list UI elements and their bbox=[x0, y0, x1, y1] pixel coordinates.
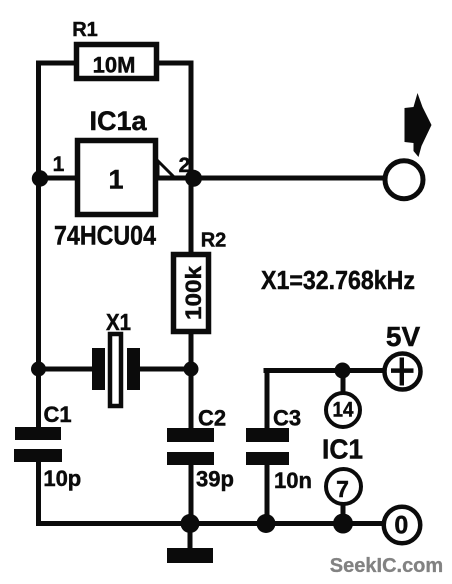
pin 14 bbox=[326, 393, 360, 427]
svg-text:C2: C2 bbox=[198, 406, 226, 431]
svg-text:1: 1 bbox=[108, 165, 123, 195]
svg-text:5V: 5V bbox=[386, 321, 421, 352]
svg-text:0: 0 bbox=[394, 512, 408, 540]
node ground rail junction 2 bbox=[257, 514, 276, 533]
output terminal circle bbox=[385, 161, 423, 199]
svg-text:10n: 10n bbox=[274, 468, 312, 493]
wire ground stub bbox=[188, 524, 193, 551]
node 0V terminal bbox=[384, 507, 421, 544]
wire output to terminal bbox=[158, 176, 385, 181]
capacitor C1 bbox=[14, 402, 81, 491]
wire C3 top branch bbox=[265, 371, 270, 429]
node 5V terminal bbox=[385, 321, 421, 390]
svg-text:X1: X1 bbox=[106, 309, 131, 335]
svg-text:R2: R2 bbox=[201, 230, 227, 252]
wire R1 to right rail bbox=[159, 61, 191, 66]
svg-text:39p: 39p bbox=[196, 467, 234, 492]
wire left vertical rail bbox=[36, 63, 41, 427]
capacitor C2 bbox=[167, 406, 234, 492]
svg-text:2: 2 bbox=[179, 154, 191, 177]
resistor R2 bbox=[174, 230, 227, 332]
svg-text:IC1a: IC1a bbox=[89, 106, 147, 136]
node pin2 junction bbox=[185, 170, 202, 187]
wire C3 bottom branch bbox=[265, 465, 270, 524]
node ground rail junction 1 bbox=[181, 514, 200, 533]
output arrow bbox=[405, 93, 432, 157]
svg-text:74HCU04: 74HCU04 bbox=[54, 221, 156, 251]
node crystal left junction bbox=[31, 362, 46, 377]
wire right vertical rail upper bbox=[189, 63, 194, 252]
wire top rail to R1 bbox=[39, 61, 75, 66]
wire crystal right bbox=[139, 367, 191, 372]
ground bbox=[167, 548, 213, 563]
capacitor C3 bbox=[246, 406, 312, 494]
svg-text:IC1: IC1 bbox=[322, 434, 363, 465]
op-amp U1 inverter gate IC1a bbox=[53, 106, 191, 251]
crystal X1 bbox=[92, 309, 140, 406]
node crystal right junction bbox=[184, 362, 199, 377]
wire R2 bottom to crystal node bbox=[189, 334, 194, 428]
pin 7 bbox=[326, 469, 361, 504]
wire left rail below C1 bbox=[36, 462, 41, 524]
wire pin14 stub bbox=[341, 371, 346, 394]
svg-text:C3: C3 bbox=[273, 406, 301, 431]
wire bottom ground rail bbox=[39, 521, 385, 526]
svg-text:SeekIC.com: SeekIC.com bbox=[330, 555, 443, 577]
svg-text:14: 14 bbox=[333, 398, 354, 422]
wire pin7 stub bbox=[341, 504, 346, 524]
svg-text:X1=32.768kHz: X1=32.768kHz bbox=[261, 265, 415, 295]
svg-text:C1: C1 bbox=[43, 402, 71, 427]
node ground rail junction 3 bbox=[333, 514, 353, 534]
svg-text:10M: 10M bbox=[93, 53, 136, 78]
svg-text:10p: 10p bbox=[43, 466, 81, 491]
wire 5V rail bbox=[266, 368, 383, 373]
svg-text:1: 1 bbox=[53, 153, 65, 176]
node pin1 junction bbox=[32, 170, 48, 186]
wire pin1 input bbox=[39, 176, 76, 181]
wire C2 bottom to ground rail bbox=[189, 465, 194, 524]
node 5V rail junction bbox=[335, 363, 351, 379]
resistor R1 bbox=[72, 19, 156, 79]
svg-text:100k: 100k bbox=[181, 265, 206, 320]
svg-text:R1: R1 bbox=[72, 19, 98, 41]
wire crystal left bbox=[39, 367, 94, 372]
svg-text:7: 7 bbox=[336, 476, 349, 502]
